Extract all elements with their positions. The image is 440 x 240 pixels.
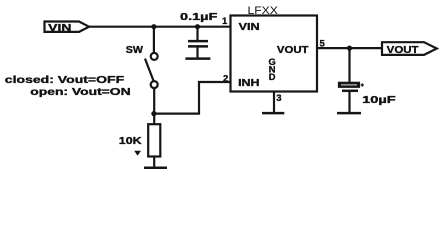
svg-text:VOUT: VOUT: [277, 45, 309, 56]
svg-text:3: 3: [276, 93, 281, 104]
svg-text:closed: Vout=OFF: closed: Vout=OFF: [5, 75, 124, 86]
svg-text:1: 1: [222, 16, 228, 27]
svg-text:VIN: VIN: [48, 23, 71, 34]
svg-text:VOUT: VOUT: [387, 45, 419, 56]
svg-text:D: D: [269, 72, 276, 82]
svg-text:10µF: 10µF: [362, 95, 396, 106]
svg-text:LFXX: LFXX: [248, 5, 279, 17]
svg-text:VIN: VIN: [239, 22, 260, 33]
svg-text:2: 2: [223, 73, 228, 84]
svg-text:0.1µF: 0.1µF: [180, 12, 217, 23]
svg-text:5: 5: [320, 38, 326, 49]
svg-text:open: Vout=ON: open: Vout=ON: [30, 87, 130, 98]
svg-text:SW: SW: [126, 45, 144, 56]
svg-text:10K: 10K: [119, 136, 143, 147]
svg-text:INH: INH: [238, 78, 259, 89]
